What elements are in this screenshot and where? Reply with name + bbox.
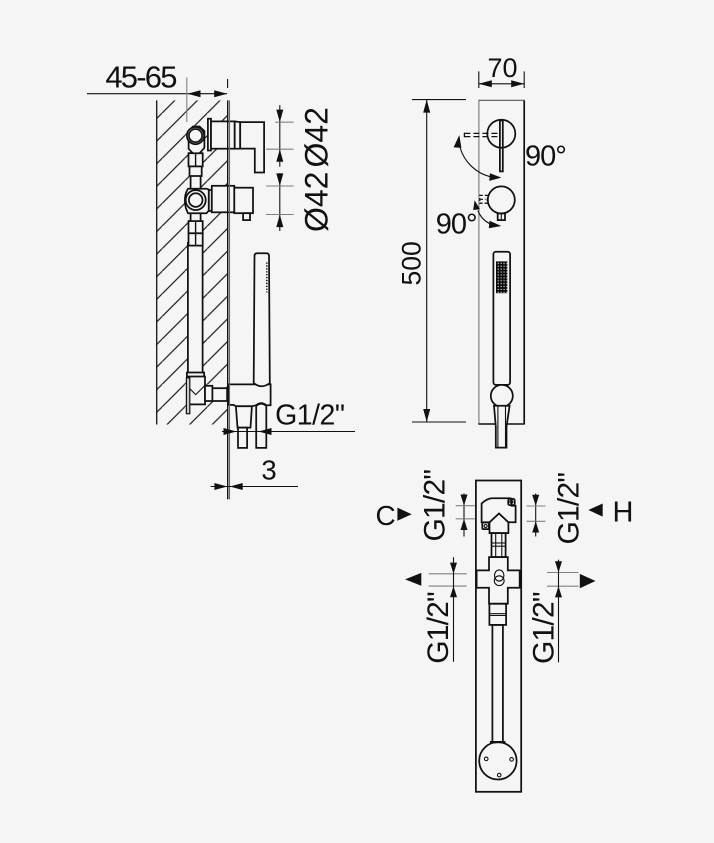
top valve elbow body xyxy=(189,127,205,154)
label C xyxy=(376,500,412,531)
dimension G1/2 side view xyxy=(222,400,355,436)
riser pipe upper segment xyxy=(191,164,201,192)
label 90 deg right xyxy=(525,141,566,173)
side view group xyxy=(87,60,355,500)
top valve inlet circle xyxy=(187,127,204,144)
svg-text:G1/2": G1/2" xyxy=(418,470,451,542)
dimension 3 (panel thickness) xyxy=(211,455,298,490)
handshower wand side view xyxy=(254,253,270,386)
svg-text:Ø42: Ø42 xyxy=(299,172,335,232)
svg-text:G1/2": G1/2" xyxy=(422,592,455,664)
long pipe rear xyxy=(490,625,506,742)
panel rear xyxy=(476,481,521,792)
wall hatching xyxy=(157,100,228,424)
label H xyxy=(588,497,633,529)
svg-text:Ø42: Ø42 xyxy=(299,107,335,167)
cross block rings xyxy=(494,570,504,586)
panel front xyxy=(478,100,524,424)
svg-text:90°: 90° xyxy=(525,141,566,173)
svg-text:500: 500 xyxy=(397,241,427,285)
dimension 500 xyxy=(397,100,467,422)
threaded pipe upper rear xyxy=(492,533,506,557)
diverter control circle xyxy=(488,186,515,220)
top fitting rear xyxy=(482,498,516,533)
tee valve body xyxy=(185,189,209,214)
dimension O42 bottom xyxy=(266,172,335,232)
svg-text:C: C xyxy=(376,500,396,531)
diverter dashed alternate position xyxy=(480,195,488,203)
riser pipe tee-to-union segment xyxy=(191,212,201,222)
dimension 70 xyxy=(479,53,524,88)
floor flange xyxy=(479,742,516,779)
top valve body through wall xyxy=(211,121,240,148)
svg-text:H: H xyxy=(613,497,634,529)
tee valve cartridge through wall xyxy=(209,186,235,213)
top control rotation arc xyxy=(454,135,502,181)
svg-text:G1/2": G1/2" xyxy=(553,473,586,545)
svg-text:3: 3 xyxy=(261,455,276,486)
bracket wall plate strip xyxy=(186,378,189,414)
tee valve circle xyxy=(186,190,206,210)
outlet housing xyxy=(229,384,271,406)
riser pipe lower segment xyxy=(187,243,204,378)
grip handle below panel xyxy=(494,406,510,448)
dimension O42 top xyxy=(266,105,335,167)
top valve lever handle xyxy=(240,122,264,172)
svg-text:70: 70 xyxy=(487,53,517,83)
wall and panel line xyxy=(228,100,230,499)
cross block xyxy=(477,557,520,604)
dimension 45-65 xyxy=(87,60,228,122)
dimension G1/2 mid-left rear xyxy=(405,557,467,664)
holder circle xyxy=(491,385,513,407)
tee valve knob xyxy=(234,188,253,220)
front view group xyxy=(397,53,566,447)
svg-text:90°: 90° xyxy=(436,209,477,241)
diverter rotation arc xyxy=(473,200,501,228)
hose connection stub right xyxy=(256,404,266,448)
svg-text:G1/2": G1/2" xyxy=(528,592,561,664)
handshower front xyxy=(493,252,510,385)
wall bracket block xyxy=(188,377,205,405)
svg-text:45-65: 45-65 xyxy=(105,60,176,95)
dimension G1/2 top-right rear xyxy=(527,473,586,545)
top valve flange xyxy=(208,119,211,151)
top control dashed alternate position xyxy=(464,133,499,137)
label 90 deg left xyxy=(436,209,477,241)
dimension G1/2 top-left rear xyxy=(418,470,475,542)
svg-text:G1/2": G1/2" xyxy=(275,400,344,432)
union nut 1 (below top elbow) xyxy=(189,153,203,176)
hose connection stub left xyxy=(236,406,252,448)
union nut 2 (below tee) xyxy=(189,221,203,246)
rear view group xyxy=(376,470,634,792)
top control handle circle xyxy=(487,120,515,172)
bracket outlet neck xyxy=(205,386,227,401)
dimension G1/2 mid-right rear xyxy=(528,560,596,664)
threaded pipe lower rear xyxy=(489,604,506,625)
